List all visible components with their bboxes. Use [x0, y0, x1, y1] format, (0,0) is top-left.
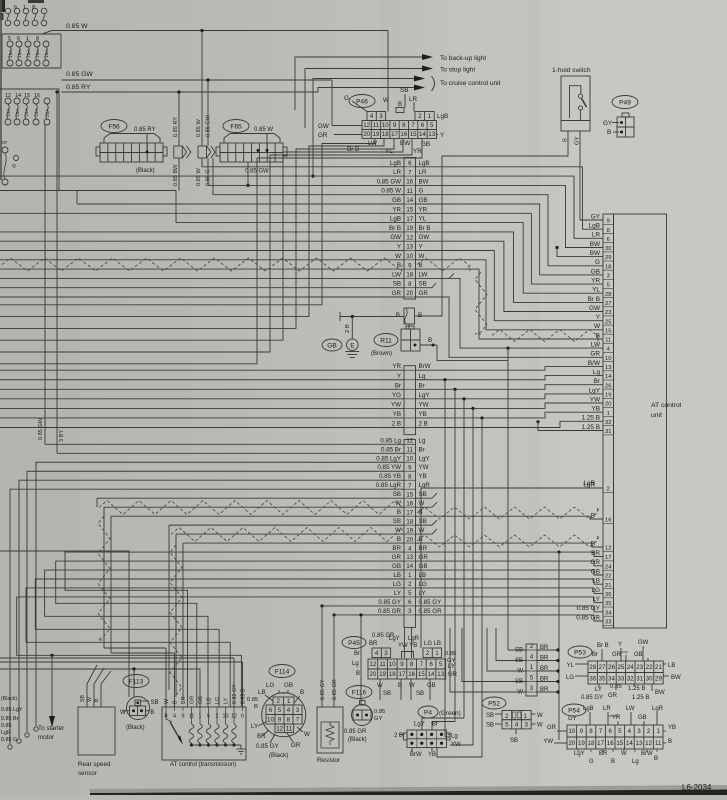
wire strip3 row20 B to AT pin 12 [416, 543, 604, 547]
svg-text:0.85 GY: 0.85 GY [256, 743, 279, 750]
wire inline conn2 to strip1 row 6 [202, 158, 404, 167]
svg-text:YL: YL [419, 216, 427, 223]
wire to strip1 row 11 (0.85 G) [213, 158, 404, 195]
shield zigzag across W/B pair (upper) [2, 258, 402, 271]
wire RY bus into inline connector 1 [178, 92, 180, 146]
svg-text:0.85 RY: 0.85 RY [173, 117, 179, 137]
svg-text:0.85 GY: 0.85 GY [378, 599, 401, 606]
svg-text:19: 19 [379, 671, 386, 678]
svg-text:GB: GB [419, 563, 428, 570]
svg-text:(Brown): (Brown) [371, 351, 392, 357]
svg-text:15: 15 [406, 208, 413, 214]
AT control (transmission) box [162, 707, 246, 760]
svg-text:0.85 GY: 0.85 GY [577, 605, 601, 612]
svg-text:3: 3 [607, 274, 610, 280]
svg-text:W: W [537, 723, 543, 729]
svg-text:BR: BR [599, 751, 608, 757]
svg-text:3 BY: 3 BY [59, 430, 65, 442]
svg-text:9: 9 [607, 219, 610, 225]
svg-text:8: 8 [589, 728, 593, 735]
relay R11 label [374, 334, 398, 347]
svg-text:34: 34 [605, 610, 612, 616]
ground net label GB [322, 339, 342, 351]
svg-text:3: 3 [379, 113, 383, 120]
fuse block C fuses 15A/20A [5, 98, 11, 104]
svg-text:LgB: LgB [437, 113, 448, 120]
svg-text:7: 7 [420, 661, 424, 668]
svg-text:GR: GR [291, 742, 301, 749]
inline connector 2 (0.85 W / 0.85 GW) [198, 146, 207, 158]
svg-text:SB: SB [151, 700, 159, 706]
svg-text:GB: GB [198, 696, 204, 704]
svg-text:15A: 15A [35, 49, 41, 58]
svg-text:LG LB: LG LB [424, 641, 441, 647]
svg-text:YR: YR [591, 278, 600, 285]
svg-text:P52: P52 [488, 700, 500, 707]
svg-text:17: 17 [406, 217, 413, 223]
svg-text:27: 27 [605, 301, 611, 307]
svg-text:15: 15 [418, 671, 425, 678]
strip3 rows BR..LY left wires with far-left bends to transmission [65, 552, 404, 707]
svg-text:YR: YR [419, 206, 428, 213]
svg-text:F114: F114 [275, 668, 290, 675]
svg-text:W: W [304, 731, 310, 738]
svg-text:SB: SB [419, 281, 427, 288]
fuse block B fuses 15A [7, 41, 13, 47]
svg-text:B: B [611, 759, 615, 765]
svg-text:0.85 YB: 0.85 YB [379, 473, 401, 480]
svg-text:1: 1 [287, 698, 291, 705]
transmission bottom bus and ground [192, 744, 242, 746]
connector P4 label [418, 706, 438, 718]
svg-text:8: 8 [402, 122, 406, 129]
svg-text:0.85 GW: 0.85 GW [38, 417, 44, 440]
svg-text:4: 4 [628, 728, 632, 735]
connector F56 body (Black) [104, 134, 160, 144]
wire 0.85GW vertical from fuse area [44, 125, 46, 444]
svg-text:To starter: To starter [38, 725, 64, 732]
svg-text:B: B [428, 337, 432, 344]
svg-text:3: 3 [384, 650, 388, 657]
svg-text:0.85 Br: 0.85 Br [381, 446, 401, 453]
svg-text:14: 14 [626, 740, 633, 747]
svg-text:Br: Br [395, 382, 401, 389]
svg-text:B: B [596, 332, 600, 339]
svg-text:YW: YW [419, 401, 429, 408]
svg-text:1: 1 [435, 650, 439, 657]
strip3 shielded rows SB/W/B group2 [169, 524, 404, 526]
svg-text:0.85 Lg: 0.85 Lg [380, 437, 401, 444]
svg-text:0.85 GW: 0.85 GW [66, 71, 93, 78]
svg-text:LgY: LgY [419, 455, 430, 462]
P46 bottom fan wires down-left to page edge [0, 139, 422, 364]
svg-text:YW YB: YW YB [398, 643, 417, 649]
svg-text:1.25 B: 1.25 B [628, 686, 645, 692]
svg-text:18: 18 [605, 264, 611, 270]
svg-text:19: 19 [406, 528, 413, 534]
svg-text:GR: GR [590, 559, 600, 566]
svg-text:YB: YB [428, 752, 436, 758]
svg-text:F56: F56 [108, 123, 120, 130]
connector P46 top cells 4|3 [367, 112, 386, 121]
svg-text:LR: LR [409, 96, 418, 103]
svg-text:0.85 W: 0.85 W [196, 119, 202, 137]
svg-text:LR: LR [419, 169, 427, 176]
wire strip1 row7 LR to page edge [0, 175, 404, 177]
svg-text:0.85 BW: 0.85 BW [173, 164, 179, 186]
svg-text:LG: LG [266, 682, 274, 689]
svg-text:30: 30 [605, 246, 611, 252]
svg-text:LgY: LgY [389, 636, 400, 642]
svg-text:0.85 GW: 0.85 GW [377, 178, 402, 185]
svg-text:3: 3 [296, 707, 300, 714]
svg-text:GR: GR [392, 290, 402, 297]
svg-text:0.85 W: 0.85 W [196, 168, 202, 186]
svg-text:YR: YR [392, 363, 401, 370]
svg-text:32: 32 [627, 675, 634, 682]
svg-text:W: W [419, 253, 425, 260]
svg-text:YW: YW [451, 742, 461, 748]
svg-text:(Black): (Black) [348, 737, 367, 743]
svg-text:18: 18 [406, 273, 413, 279]
svg-text:Lg: Lg [419, 437, 426, 444]
svg-text:LR: LR [603, 706, 611, 712]
svg-text:GB: GB [419, 197, 428, 204]
svg-text:20: 20 [406, 291, 413, 297]
svg-text:BrW: BrW [410, 752, 422, 758]
connector F65 body [224, 134, 280, 144]
svg-text:15A: 15A [15, 108, 21, 117]
wire F116 to 0.85GR row [360, 615, 362, 705]
svg-text:GB: GB [392, 197, 401, 204]
transmission pin ticks and numbers [165, 707, 167, 711]
svg-text:0.85: 0.85 [445, 651, 456, 657]
svg-text:16: 16 [406, 180, 413, 186]
svg-text:26: 26 [605, 383, 611, 389]
svg-text:GR: GR [612, 652, 622, 658]
svg-text:LgY: LgY [574, 751, 585, 757]
svg-text:(Black): (Black) [269, 752, 288, 759]
svg-text:11: 11 [286, 725, 293, 732]
connector stub at left edge below fuses [2, 147, 8, 153]
svg-text:6: 6 [241, 714, 244, 720]
svg-text:0.85 GY: 0.85 GY [232, 684, 238, 704]
wire W bus into inline connector 2 [201, 31, 203, 147]
svg-text:YB: YB [419, 411, 427, 418]
junction strip 1 body [404, 158, 416, 300]
svg-text:15A: 15A [26, 49, 32, 58]
svg-text:3: 3 [637, 728, 641, 735]
svg-text:YR: YR [392, 206, 401, 213]
svg-text:G: G [419, 188, 424, 195]
svg-text:25: 25 [605, 319, 611, 325]
wire strip1 row18 LW to AT pin 4 with hook [416, 278, 604, 348]
svg-text:21: 21 [605, 583, 611, 589]
svg-text:To stop light: To stop light [440, 67, 475, 74]
svg-text:LgY: LgY [419, 392, 430, 399]
svg-text:LG: LG [419, 581, 427, 588]
svg-text:LgB: LgB [390, 216, 401, 223]
svg-text:36: 36 [605, 592, 611, 598]
wire 0.85 GW bus [62, 79, 333, 81]
svg-text:2: 2 [277, 698, 281, 705]
svg-text:8: 8 [607, 228, 610, 234]
svg-text:0.85: 0.85 [1, 723, 12, 729]
connector P54 body [567, 725, 663, 737]
svg-text:19: 19 [605, 393, 611, 399]
svg-text:20: 20 [363, 131, 370, 138]
svg-text:5: 5 [8, 36, 11, 42]
svg-text:W: W [395, 253, 401, 260]
svg-text:24: 24 [627, 664, 634, 671]
svg-text:2 B: 2 B [394, 733, 403, 739]
svg-text:Y: Y [596, 314, 601, 321]
transmission feed horizontal from page edge [0, 661, 243, 663]
svg-text:motor: motor [38, 734, 54, 741]
svg-text:LY: LY [394, 590, 401, 597]
svg-text:unit: unit [651, 412, 662, 419]
svg-text:F113: F113 [129, 678, 144, 685]
wire 3BY vertical [56, 92, 58, 453]
svg-text:GB: GB [427, 683, 436, 689]
wire relay to inline connector [408, 324, 410, 329]
svg-text:LB: LB [207, 697, 213, 704]
svg-text:BrW: BrW [419, 363, 431, 370]
fuse block row A (cut at top edge) [5, 8, 11, 14]
svg-text:GR: GR [590, 351, 600, 358]
strip3 right wires to AT pins lower block [416, 552, 604, 556]
svg-text:31: 31 [636, 675, 643, 682]
svg-text:0.85 YW: 0.85 YW [377, 464, 401, 471]
svg-text:2 B: 2 B [419, 421, 428, 428]
svg-text:0.85 G: 0.85 G [1, 737, 17, 743]
connector F116 body (Black) [352, 705, 373, 726]
svg-text:1.25 B: 1.25 B [632, 695, 649, 701]
svg-text:YL: YL [567, 663, 575, 669]
rear speed sensor wires [86, 684, 88, 707]
svg-text:19: 19 [578, 740, 585, 747]
svg-text:12: 12 [363, 122, 370, 129]
svg-text:34: 34 [608, 675, 615, 682]
svg-text:GB: GB [327, 342, 337, 349]
svg-text:GR: GR [318, 132, 328, 139]
strip1 left wires to page edge [0, 212, 404, 214]
svg-text:19: 19 [406, 226, 413, 232]
svg-text:31: 31 [605, 429, 611, 435]
svg-text:Y: Y [618, 642, 622, 648]
svg-text:Y: Y [397, 244, 401, 251]
svg-text:10: 10 [389, 661, 396, 668]
AT pin cells and numbers upper [603, 223, 614, 225]
svg-text:LgY: LgY [414, 722, 425, 728]
junction strip 3 body [404, 440, 416, 628]
svg-text:To back-up light: To back-up light [440, 55, 486, 62]
svg-text:LgB: LgB [583, 706, 594, 712]
svg-text:12: 12 [406, 439, 413, 445]
strip2 right wires to AT pins 13,14,26,19,20,1 [416, 366, 604, 370]
wire switch GY to AT pin 9 [580, 131, 603, 220]
svg-text:5: 5 [278, 707, 282, 714]
svg-text:B: B [300, 689, 304, 696]
svg-text:(Black): (Black) [1, 696, 17, 702]
svg-text:GB: GB [634, 652, 643, 658]
wire x508 vertical from LW wire down to bottom strip [506, 347, 509, 350]
svg-text:B: B [607, 129, 611, 136]
svg-text:G: G [589, 759, 594, 765]
svg-text:7: 7 [599, 728, 603, 735]
strip1 right staircase wires to AT pins [416, 167, 604, 229]
svg-text:4: 4 [375, 650, 379, 657]
svg-text:LW: LW [392, 271, 401, 278]
svg-text:17: 17 [605, 555, 611, 561]
svg-text:B: B [356, 671, 360, 677]
svg-text:LW: LW [626, 706, 635, 712]
svg-text:2 B: 2 B [392, 421, 401, 428]
svg-text:13: 13 [428, 131, 435, 138]
wire GW bus into inline connector 2 [207, 80, 209, 146]
svg-text:6: 6 [608, 728, 612, 735]
wire switch B [415, 131, 568, 316]
svg-text:BR: BR [181, 696, 187, 704]
svg-text:4: 4 [515, 722, 519, 729]
svg-text:YW: YW [590, 396, 601, 403]
vertical taps from strip2 rows down to P4/P45 region [443, 378, 446, 381]
svg-text:Lg: Lg [352, 661, 359, 667]
svg-text:18: 18 [588, 740, 595, 747]
svg-text:P46: P46 [356, 98, 368, 105]
svg-text:12: 12 [406, 235, 413, 241]
svg-text:GW: GW [419, 234, 430, 241]
svg-text:10: 10 [605, 356, 611, 362]
svg-text:16: 16 [607, 740, 614, 747]
svg-text:12: 12 [605, 546, 611, 552]
svg-text:LG: LG [591, 587, 600, 594]
svg-text:Lg: Lg [593, 369, 601, 376]
svg-text:GR: GR [608, 693, 618, 699]
P45 bottom wires [379, 679, 381, 700]
P4 tap bends [445, 736, 450, 738]
svg-text:G: G [595, 259, 600, 266]
svg-text:2: 2 [418, 113, 422, 120]
svg-text:24: 24 [605, 564, 612, 570]
connector F114 round body (Black) [262, 693, 306, 737]
svg-text:P53: P53 [574, 649, 586, 656]
svg-text:4: 4 [287, 707, 291, 714]
svg-text:15A: 15A [24, 108, 30, 117]
svg-text:9: 9 [393, 122, 397, 129]
svg-text:SB: SB [416, 691, 424, 697]
svg-text:15A: 15A [17, 49, 23, 58]
resistor box [317, 707, 343, 753]
connector F116 label [346, 686, 372, 699]
svg-text:2: 2 [426, 650, 430, 657]
svg-text:LW: LW [419, 271, 428, 278]
shield zigzag horizontal band 1 [99, 501, 402, 515]
svg-text:GB: GB [392, 563, 401, 570]
svg-text:14: 14 [428, 671, 435, 678]
svg-text:28: 28 [605, 292, 611, 298]
svg-text:YB: YB [668, 725, 676, 731]
svg-text:P4: P4 [424, 709, 432, 716]
svg-text:6: 6 [17, 36, 20, 42]
svg-text:0.85 GY: 0.85 GY [419, 599, 442, 606]
svg-text:LG: LG [566, 675, 574, 681]
svg-text:GY: GY [591, 213, 601, 220]
svg-text:20: 20 [568, 740, 575, 747]
connector P46 top cells 2|1 [415, 112, 434, 121]
svg-text:1: 1 [428, 113, 432, 120]
connector P53 body [588, 661, 663, 673]
svg-text:15A: 15A [34, 108, 40, 117]
svg-text:9: 9 [400, 661, 404, 668]
svg-text:28: 28 [589, 664, 596, 671]
svg-text:1: 1 [26, 36, 29, 42]
svg-text:22: 22 [605, 574, 611, 580]
wire fuse box bottom to strip1 row17 [176, 191, 404, 223]
svg-text:0.85 Br: 0.85 Br [1, 716, 19, 722]
junction strip SB/BR [526, 644, 537, 696]
connector P52 label [482, 697, 506, 709]
svg-text:BW: BW [419, 178, 429, 185]
svg-text:36: 36 [589, 675, 596, 682]
svg-text:Br B: Br B [597, 643, 609, 649]
svg-text:8: 8 [36, 36, 39, 42]
svg-text:13: 13 [406, 555, 413, 561]
svg-text:0.85 W: 0.85 W [381, 188, 401, 195]
svg-text:32: 32 [605, 420, 611, 426]
svg-text:GY: GY [603, 120, 613, 127]
connector P45 main grid [368, 659, 446, 669]
svg-text:B: B [397, 536, 401, 543]
svg-text:0.85 GR: 0.85 GR [419, 608, 443, 615]
svg-text:25: 25 [617, 664, 624, 671]
svg-text:Q: Q [12, 163, 16, 169]
shield zigzag horizontal band 2 [171, 528, 402, 542]
svg-text:22: 22 [646, 664, 653, 671]
svg-text:10: 10 [406, 456, 413, 462]
svg-text:LR: LR [592, 232, 601, 239]
connector F114 label [269, 665, 295, 678]
svg-text:LgB: LgB [419, 160, 430, 167]
svg-text:35: 35 [599, 675, 606, 682]
svg-text:LG: LG [215, 697, 221, 704]
wire 0.85 RY bus [62, 88, 415, 93]
ground terminal E [347, 339, 359, 351]
svg-text:13: 13 [437, 671, 444, 678]
wire strip1 row14 from fuse-line tap [76, 191, 78, 205]
svg-text:27: 27 [599, 664, 606, 671]
wire R11 B to x508 junction [437, 345, 508, 360]
svg-text:GW: GW [589, 305, 601, 312]
svg-text:YL: YL [592, 287, 600, 294]
svg-text:Br: Br [419, 382, 425, 389]
svg-text:GB: GB [591, 268, 600, 275]
svg-text:0.85 RY: 0.85 RY [134, 127, 156, 133]
svg-text:6: 6 [429, 661, 433, 668]
svg-text:SB: SB [383, 691, 391, 697]
svg-text:B: B [398, 102, 402, 108]
svg-text:SB: SB [486, 713, 494, 719]
inline connector 0.85 RY / 0.85 BW [174, 146, 183, 158]
svg-text:16: 16 [406, 501, 413, 507]
svg-text:BW: BW [655, 690, 665, 696]
svg-text:4: 4 [370, 113, 374, 120]
svg-text:GY: GY [568, 716, 577, 722]
svg-text:Br: Br [354, 651, 360, 657]
svg-text:0.85 GY: 0.85 GY [320, 679, 326, 700]
svg-text:LgR: LgR [652, 706, 664, 712]
svg-text:BR: BR [419, 545, 428, 552]
